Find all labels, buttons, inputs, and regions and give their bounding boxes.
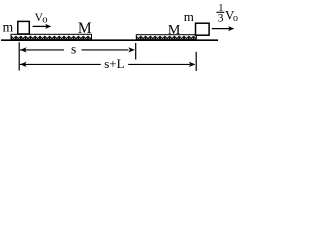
block m (right) [196,23,210,35]
svg-text:M: M [168,23,181,38]
dimension tick left (shared) [18,42,20,70]
svg-text:3: 3 [218,13,224,25]
svg-text:o: o [42,14,47,25]
plank M (right) [136,35,196,41]
velocity arrow (left) [33,24,52,29]
dimension line s+L [20,62,195,67]
svg-text:s: s [71,41,76,56]
velocity arrow (right) [212,26,235,31]
svg-text:s+L: s+L [104,56,124,71]
dimension tick right of s [135,43,137,60]
plank M (left) [11,34,92,40]
svg-text:M: M [78,20,92,37]
svg-text:m: m [184,9,194,24]
block m (left) [18,21,30,34]
svg-text:o: o [233,13,238,24]
svg-text:m: m [3,20,14,35]
dimension line s [20,47,135,52]
dimension tick right of s+L [195,52,197,71]
ground [1,39,218,41]
